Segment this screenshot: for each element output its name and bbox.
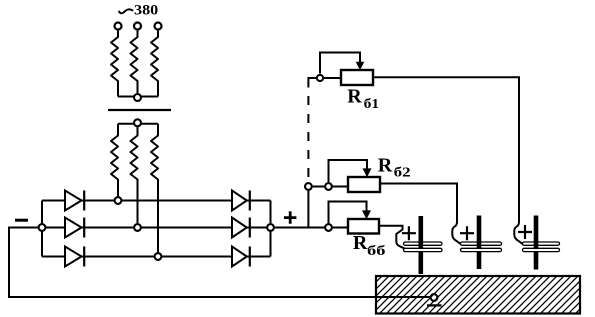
wire Rb1 to torch3 xyxy=(373,77,519,222)
wire negative bus xyxy=(41,201,43,257)
node secondary star point xyxy=(134,119,141,126)
svg-text:380: 380 xyxy=(134,3,158,19)
wire positive rail to Rbb xyxy=(271,227,349,229)
node phase c on bottom rail xyxy=(155,253,162,260)
wire Rbb to torch1 / feed hook xyxy=(379,226,405,249)
wire Rb1 wiper loop xyxy=(320,53,360,74)
transformer T1 core xyxy=(108,109,171,111)
rheostat Rbb xyxy=(348,219,379,234)
diode VD2 xyxy=(65,218,84,238)
torch3 coil rear turn xyxy=(523,242,560,245)
torch2 feed hook xyxy=(452,222,461,245)
torch2 coil rear turn xyxy=(461,242,502,245)
dashed wire from Rb1 down to Rb2 node xyxy=(307,96,309,178)
wire Rb1 node to rheostat xyxy=(320,77,341,79)
workpiece plate (hatched) xyxy=(376,276,580,314)
wire rectifier top rail xyxy=(42,200,271,202)
wire Rb1 node elbow xyxy=(308,78,320,88)
diode VD3 xyxy=(65,247,84,267)
arrow Rb1 wiper xyxy=(356,62,365,71)
label plus torch2 xyxy=(460,226,474,240)
label plus torch1 xyxy=(402,226,416,240)
diode VD1 xyxy=(65,191,84,211)
rheostat Rb2 xyxy=(348,177,380,192)
svg-text:бб: бб xyxy=(367,243,386,258)
diode VD6 xyxy=(232,247,250,267)
arrow Rb2 wiper xyxy=(363,168,372,177)
ground clamp mark xyxy=(427,304,442,306)
svg-text:б1: б1 xyxy=(364,96,380,111)
transformer T1 primary winding b xyxy=(131,31,138,97)
rheostat Rb1 xyxy=(341,70,373,85)
wire Rbb wiper loop xyxy=(329,202,367,224)
transformer T1 primary winding c xyxy=(151,31,158,97)
diode VD5 xyxy=(232,218,250,238)
arrow Rbb wiper xyxy=(362,210,371,219)
label plus (rectifier output) xyxy=(284,211,296,223)
svg-text:б2: б2 xyxy=(394,164,411,179)
label Rb2 xyxy=(378,156,411,180)
electrode 1 xyxy=(419,216,424,274)
transformer T1 primary winding a xyxy=(111,31,118,97)
wire rectifier bottom rail xyxy=(42,256,271,258)
wire Rb2 wiper loop xyxy=(329,160,368,182)
torch2 coil front turn xyxy=(461,248,502,251)
torch1 coil front turn xyxy=(404,248,443,251)
svg-text:R: R xyxy=(378,156,393,177)
electrode 2 xyxy=(477,216,482,270)
label plus torch3 xyxy=(518,225,532,239)
node primary star point xyxy=(134,94,141,101)
node Rb2 tap xyxy=(325,183,332,190)
terminal L3 xyxy=(155,23,162,30)
node phase a on top rail xyxy=(115,197,122,204)
svg-text:R: R xyxy=(347,87,362,108)
ground clamp circle on workpiece xyxy=(431,294,438,301)
wire secondary common xyxy=(118,123,158,125)
wire Rb2 to torch2 xyxy=(380,184,457,223)
node phase b on middle rail xyxy=(134,224,141,231)
wire junction down from Rb2 node to positive rail xyxy=(307,187,309,228)
transformer T1 secondary winding b / phase wire to middle rail xyxy=(131,124,138,228)
diode VD4 xyxy=(232,191,250,211)
wire rectifier middle rail xyxy=(42,227,271,229)
label Rbb xyxy=(353,233,386,258)
node Rbb tap xyxy=(325,224,332,231)
transformer T1 secondary winding c / phase wire to bottom rail xyxy=(151,124,158,257)
node positive output xyxy=(267,224,274,231)
terminal L1 xyxy=(115,23,122,30)
torch3 feed hook xyxy=(514,222,523,245)
wire negative output to workpiece xyxy=(9,228,430,298)
wire primary star connection xyxy=(118,96,158,98)
node Rb2 left xyxy=(305,183,312,190)
label ~380 xyxy=(119,3,158,19)
node negative output xyxy=(39,224,46,231)
label Rb1 xyxy=(347,87,379,112)
torch1 coil rear turn xyxy=(404,242,443,245)
terminal L2 xyxy=(134,23,141,30)
wire Rb2 nodes to rheostat xyxy=(308,186,348,188)
wire positive bus xyxy=(270,201,272,257)
transformer T1 secondary winding a / phase wire to top rail xyxy=(111,124,118,201)
label minus xyxy=(15,219,28,222)
node Rb1 tap xyxy=(317,75,323,81)
electrode 3 xyxy=(534,216,539,270)
torch3 coil front turn xyxy=(523,248,560,251)
